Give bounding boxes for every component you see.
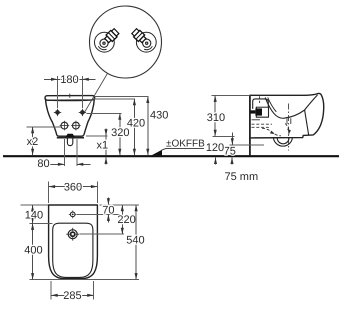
front view bottom base line <box>57 137 84 139</box>
svg-text:540: 540 <box>126 235 144 247</box>
side view cavity shelf <box>256 106 268 108</box>
dimension 120 <box>206 142 224 165</box>
svg-text:360: 360 <box>64 181 82 193</box>
fixing hole right <box>79 109 86 116</box>
side view bowl rim double line <box>268 97 277 111</box>
side view hidden trap curve <box>262 128 281 136</box>
side view hidden line lower <box>252 126 271 128</box>
dimension 180 <box>44 74 96 108</box>
side view inlet center tick <box>259 96 261 103</box>
side view lower box <box>256 107 268 117</box>
dimension 285 <box>51 281 93 302</box>
dimension 140 <box>25 205 43 223</box>
side view flow arrow 1 <box>270 131 275 135</box>
front view rim center tick <box>69 94 71 98</box>
supply hole right <box>71 121 81 131</box>
side view inlet black block <box>255 108 262 115</box>
svg-text:180: 180 <box>60 74 78 86</box>
rim extension lines <box>95 96 149 98</box>
front view outlet block <box>66 134 75 137</box>
svg-text:140: 140 <box>25 209 43 221</box>
drain leader line <box>79 233 124 235</box>
side view trap inner arc <box>277 138 289 144</box>
detail bolt left <box>95 28 120 52</box>
plan view inner bowl <box>53 223 93 277</box>
svg-text:220: 220 <box>117 214 135 226</box>
side view far rim edge <box>305 95 318 110</box>
dimension 310 <box>207 95 250 136</box>
side view trap outer arc <box>273 138 292 146</box>
dimension 75 <box>224 132 264 164</box>
floor line <box>3 155 339 157</box>
dimension 80 <box>37 139 90 170</box>
svg-text:285: 285 <box>63 290 81 302</box>
svg-text:x1: x1 <box>96 140 108 152</box>
plan bowl-top extension <box>30 222 53 224</box>
plan top extension line <box>100 204 140 206</box>
plan view drain <box>66 228 79 241</box>
side view hidden trap curve right <box>285 124 289 135</box>
side view wall pipe stub <box>250 110 255 113</box>
side view cavity floor line <box>252 119 261 121</box>
front view rim inner sag <box>49 99 92 102</box>
dimension x2 <box>27 127 62 155</box>
side view hidden line upper <box>252 123 273 125</box>
side view bowl curve <box>265 98 304 118</box>
side view cavity box <box>253 99 269 109</box>
plan view tap hole <box>69 211 77 219</box>
fixing holes extension line <box>87 112 122 114</box>
dimension x1 <box>86 128 108 164</box>
dimension 430 <box>146 97 168 156</box>
plan bottom extension line <box>30 279 140 281</box>
tap leader line <box>77 213 120 215</box>
dimension 540 <box>126 205 144 280</box>
side view drain hole lines <box>286 119 288 124</box>
dimension 320 <box>111 113 129 155</box>
side view bidet outline <box>250 93 324 137</box>
detail circle <box>90 6 162 78</box>
side view drain centerline <box>288 104 290 151</box>
front view bidet outline <box>46 99 95 136</box>
datum symbol OKFFB <box>152 139 206 156</box>
dimension 400 <box>24 223 42 279</box>
leader line to detail circle <box>85 73 108 112</box>
svg-text:±OKFFB: ±OKFFB <box>166 139 205 150</box>
front view outlet slot <box>67 138 72 146</box>
svg-text:75 mm: 75 mm <box>225 171 259 183</box>
svg-text:400: 400 <box>24 245 42 257</box>
supply hole left <box>60 121 70 131</box>
side view bowl front wall <box>305 110 309 135</box>
detail bolt right <box>131 28 156 52</box>
dimension 70 <box>102 197 114 222</box>
svg-text:70: 70 <box>102 205 114 217</box>
svg-text:80: 80 <box>37 158 49 170</box>
front view rim band <box>45 96 95 101</box>
plan left top extension <box>21 204 49 206</box>
plan view outer outline <box>49 205 98 279</box>
dimension 360 <box>49 181 98 203</box>
svg-text:75: 75 <box>224 146 236 158</box>
side view wall line <box>249 95 251 156</box>
side view flow arrow 2 <box>287 129 291 133</box>
svg-text:120: 120 <box>206 142 224 154</box>
svg-text:x2: x2 <box>27 136 39 148</box>
svg-text:430: 430 <box>150 110 168 122</box>
svg-text:310: 310 <box>207 112 225 124</box>
fixing hole left <box>54 109 61 116</box>
dimension 220 <box>117 205 135 234</box>
svg-text:420: 420 <box>127 118 145 130</box>
dimension 420 <box>127 99 145 155</box>
